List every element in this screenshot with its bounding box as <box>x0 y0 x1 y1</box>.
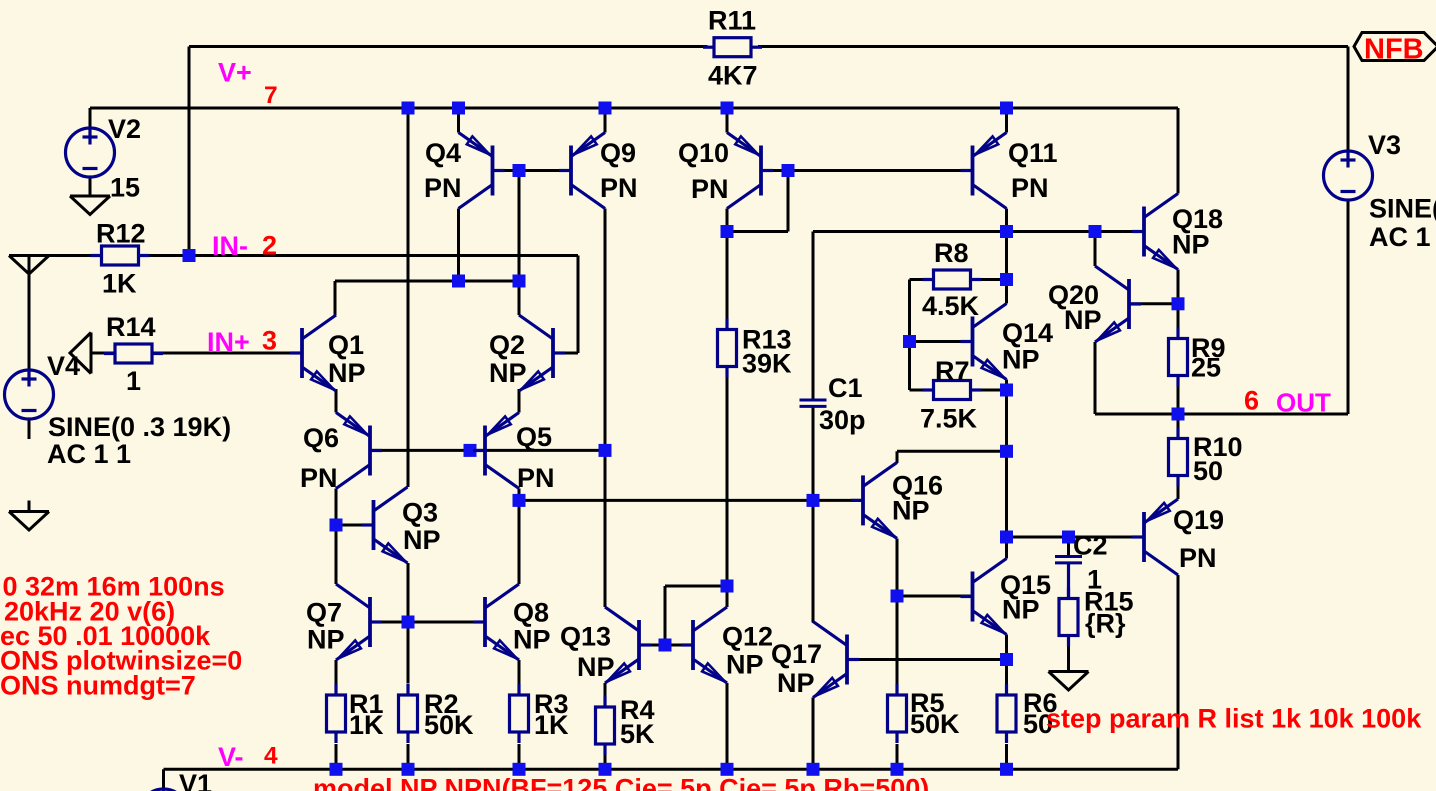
svg-text:C2: C2 <box>1073 531 1108 561</box>
wire Q11 collector drop <box>1005 209 1008 232</box>
node Q17 base node <box>1000 653 1013 666</box>
wire spine 390-451 <box>1005 390 1008 451</box>
wire Q7-Q8 base rail <box>370 621 485 624</box>
node base Q5 pin <box>464 444 477 457</box>
resistor R4 <box>596 696 615 755</box>
svg-text:Q9: Q9 <box>600 138 636 168</box>
wire C1 bottom column <box>812 408 815 623</box>
wire V1 drop <box>162 769 165 789</box>
wire R8 right lead <box>971 278 1007 281</box>
svg-text:NP: NP <box>513 625 551 655</box>
svg-text:AC 1 1: AC 1 1 <box>47 439 131 469</box>
svg-text:50K: 50K <box>910 709 960 739</box>
wire R8 left drop <box>908 280 911 391</box>
wire Q16 collector line <box>897 450 1007 453</box>
wire Q4-Q9 base link <box>493 169 572 172</box>
svg-text:step param R list 1k 10k 100k: step param R list 1k 10k 100k <box>1046 704 1422 734</box>
wire Q10 collector drop <box>726 209 729 232</box>
svg-text:2: 2 <box>262 231 277 261</box>
resistor R14 <box>104 344 163 363</box>
node V- R6 <box>1000 763 1013 776</box>
wire R14 gnd lead <box>91 352 115 355</box>
svg-text:{R}: {R} <box>1085 609 1126 639</box>
wire V3 top drop <box>1347 47 1350 152</box>
wire R9 to OUT <box>1177 376 1180 415</box>
transistor Q7 <box>336 584 382 660</box>
svg-text:Q17: Q17 <box>771 639 822 669</box>
transistor Q17 <box>813 622 859 698</box>
transistor Q10 <box>727 133 773 209</box>
resistor R10 <box>1169 428 1188 487</box>
svg-text:1K: 1K <box>534 710 569 740</box>
node C2 node <box>1062 531 1075 544</box>
wire R9 top lead <box>1177 304 1180 339</box>
svg-text:6: 6 <box>1244 386 1259 416</box>
wire Q20 base lead <box>1129 302 1178 305</box>
svg-text:Q5: Q5 <box>516 422 552 452</box>
net flag NFB <box>1354 33 1436 61</box>
wire Q15 collector rise <box>1005 537 1008 559</box>
svg-text:30p: 30p <box>819 405 866 435</box>
wire C2 top stub <box>1067 537 1070 557</box>
svg-text:PN: PN <box>1011 173 1049 203</box>
node Q3 base node <box>330 519 343 532</box>
svg-text:Q2: Q2 <box>489 330 525 360</box>
svg-text:NP: NP <box>1064 305 1102 335</box>
svg-text:NP: NP <box>577 652 615 682</box>
wire Q12 emitter drop <box>726 683 729 769</box>
svg-text:1: 1 <box>126 366 141 396</box>
node Q4 base diode <box>513 164 526 177</box>
node Q10 diode <box>782 164 795 177</box>
wire Q10-Q11 base link <box>761 169 973 172</box>
resistor R6 <box>997 684 1016 743</box>
svg-text:R12: R12 <box>96 219 146 249</box>
svg-text:NP: NP <box>777 668 815 698</box>
resistor R8 <box>923 270 982 289</box>
svg-text:NP: NP <box>726 650 764 680</box>
voltage source V2 <box>66 128 115 177</box>
svg-text:Q4: Q4 <box>425 138 461 168</box>
wire Q16 collector jog v <box>896 451 899 463</box>
wire top left drop to IN- <box>188 47 191 256</box>
svg-text:model NP NPN(BF=125 Cje=.5p Cj: model NP NPN(BF=125 Cje=.5p Cje=.5p Rb=5… <box>313 774 929 791</box>
node Q16 col node <box>1000 445 1013 458</box>
svg-text:NP: NP <box>1002 345 1040 375</box>
svg-text:NP: NP <box>489 358 527 388</box>
transistor Q6 <box>336 413 382 489</box>
wire Q1 collector riser <box>334 281 337 315</box>
wire Q12 diode horizontal <box>665 585 727 588</box>
wire Q11 emitter to V+ <box>1005 108 1008 133</box>
resistor R3 <box>510 684 529 743</box>
wire Q2 base jog vertical <box>577 256 580 354</box>
svg-text:Q14: Q14 <box>1002 318 1053 348</box>
transistor Q19 <box>1132 499 1178 575</box>
transistor Q13 <box>605 607 651 683</box>
wire NFB-IN- top run <box>189 45 708 48</box>
wire Q4 emitter drop <box>457 108 460 133</box>
transistor Q2 <box>519 315 565 391</box>
svg-text:R14: R14 <box>106 312 156 342</box>
resistor R7 <box>923 381 982 400</box>
node R8 left node <box>903 335 916 348</box>
wire Q16 emitter column <box>896 539 899 685</box>
node Q15 base node <box>891 590 904 603</box>
wire Q14 base lead <box>910 340 973 343</box>
wire R4 bottom <box>604 754 607 769</box>
node mirror rail A <box>452 275 465 288</box>
svg-text:PN: PN <box>300 463 338 493</box>
wire R13 to Q12 node <box>726 367 729 587</box>
node V- R2 <box>402 763 415 776</box>
wire Q3 collector column <box>407 108 410 487</box>
wire Q20 emitter drop <box>1094 342 1097 414</box>
svg-text:IN-: IN- <box>212 231 248 261</box>
node R7 node <box>1000 384 1013 397</box>
wire R6 top lead <box>1005 660 1008 685</box>
node OUT node <box>1172 408 1185 421</box>
resistor R13 <box>718 319 737 378</box>
wire comp node left <box>813 230 1007 233</box>
node V+ Q10 <box>721 102 734 115</box>
svg-text:1K: 1K <box>349 710 384 740</box>
node R8 node <box>1000 273 1013 286</box>
node comp Q10 <box>721 225 734 238</box>
ground at R14 <box>70 333 91 374</box>
wire R2 bottom <box>407 744 410 769</box>
svg-text:50: 50 <box>1193 456 1223 486</box>
svg-text:ONS numdgt=7: ONS numdgt=7 <box>0 670 196 700</box>
node comp Q20 <box>1089 225 1102 238</box>
wire V3 bottom to OUT <box>1347 201 1350 415</box>
svg-text:Q19: Q19 <box>1173 505 1224 535</box>
voltage source V4 <box>5 370 54 419</box>
transistor Q4 <box>459 133 505 209</box>
resistor R1 <box>327 684 346 743</box>
wire OUT to V3 riser <box>1178 413 1348 416</box>
wire C2 to R15 <box>1067 563 1070 600</box>
svg-text:Q1: Q1 <box>328 330 364 360</box>
svg-text:PN: PN <box>517 463 555 493</box>
node V+ Q4 <box>452 102 465 115</box>
wire Q4 collector drop <box>457 209 460 282</box>
wire Q17 base line <box>847 658 1007 661</box>
wire Q3 base lead <box>336 524 374 527</box>
svg-text:R11: R11 <box>708 6 756 36</box>
svg-text:Q10: Q10 <box>678 138 729 168</box>
transistor Q9 <box>559 133 605 209</box>
transistor Q20 <box>1095 266 1141 342</box>
node V+ Q9 <box>599 102 612 115</box>
svg-text:SINE(0 1 1K): SINE(0 1 1K) <box>1369 194 1436 224</box>
svg-text:NFB: NFB <box>1364 33 1424 65</box>
resistor R2 <box>399 684 418 743</box>
node V+ Q11 <box>1000 102 1013 115</box>
svg-text:Q12: Q12 <box>722 622 773 652</box>
wire Q9 emitter to V+ <box>604 108 607 133</box>
wire V3 riser <box>1348 413 1351 416</box>
wire IN+ line <box>153 352 303 355</box>
svg-text:R8: R8 <box>934 238 969 268</box>
svg-text:25: 25 <box>1191 353 1221 383</box>
svg-text:5K: 5K <box>620 719 655 749</box>
svg-text:SINE(0 .3 19K): SINE(0 .3 19K) <box>48 412 231 442</box>
wire IN- from R12 to Q2 jog <box>140 254 578 257</box>
capacitor C2 <box>1055 557 1082 563</box>
voltage source V3 <box>1324 151 1373 200</box>
transistor Q5 <box>473 413 519 489</box>
resistor R15 <box>1059 588 1078 647</box>
wire Q19 base line <box>1069 536 1145 539</box>
wire Q10 collector to R13 <box>726 232 729 330</box>
wire Q18 collector to V+ <box>1177 108 1180 194</box>
node V+ Q3 <box>402 102 415 115</box>
svg-text:1: 1 <box>1087 565 1102 595</box>
svg-text:Q6: Q6 <box>303 423 339 453</box>
wire V- rail <box>164 768 1179 771</box>
svg-text:15: 15 <box>110 173 140 203</box>
wire Q17 emitter drop <box>812 698 815 770</box>
wire Q16 base line <box>519 499 863 502</box>
svg-text:7.5K: 7.5K <box>920 404 978 434</box>
wire Q15 base lead <box>897 595 973 598</box>
resistor R12 <box>91 246 150 265</box>
wire Q20 emitter to OUT <box>1095 413 1178 416</box>
wire Q2-Q5 emitter link <box>518 389 521 413</box>
wire R1 bottom <box>335 744 338 769</box>
wire V+ rail <box>90 107 1178 110</box>
wire mirror rail y281 <box>335 280 519 283</box>
wire comp node to Q18 base <box>1007 230 1145 233</box>
wire V2 minus stub <box>89 178 92 197</box>
svg-text:NP: NP <box>1002 595 1040 625</box>
ground below V2 <box>70 196 110 215</box>
wire Q12-Q13 base link <box>639 644 693 647</box>
wire R8 left lead <box>910 278 934 281</box>
svg-text:7: 7 <box>264 82 278 109</box>
svg-text:Q7: Q7 <box>306 598 342 628</box>
svg-text:NP: NP <box>403 525 441 555</box>
svg-text:C1: C1 <box>828 373 863 403</box>
wire R5 bottom <box>896 744 899 769</box>
svg-text:39K: 39K <box>742 349 792 379</box>
wire C1 top drop <box>812 232 815 400</box>
svg-text:V+: V+ <box>218 58 252 88</box>
wire spine 231-279 <box>1005 232 1008 280</box>
wire R3 bottom <box>518 744 521 769</box>
wire NFB top run right <box>758 45 1348 48</box>
node vas in A <box>513 494 526 507</box>
wire Q13 emitter drop <box>604 683 607 698</box>
node V- R1 <box>330 763 343 776</box>
resistor R5 <box>888 684 907 743</box>
svg-text:PN: PN <box>1179 543 1217 573</box>
wire Q15 emitter drop <box>1005 635 1008 660</box>
wire Q4 base diode drop <box>518 171 521 316</box>
svg-text:PN: PN <box>691 174 729 204</box>
wire R7 left lead <box>910 389 934 392</box>
svg-text:V3: V3 <box>1368 130 1401 160</box>
node V- R5 <box>891 763 904 776</box>
wire R10 to Q19 <box>1177 476 1180 500</box>
wire V4 plus to IN- gnd <box>28 256 31 371</box>
node Q12 diode node <box>659 639 672 652</box>
svg-text:Q8: Q8 <box>513 598 549 628</box>
svg-text:V2: V2 <box>108 114 141 144</box>
wire R2 top lead <box>407 622 410 684</box>
svg-text:1K: 1K <box>102 269 137 299</box>
wire Q9 collector long drop <box>604 209 607 608</box>
svg-text:Q11: Q11 <box>1008 138 1058 168</box>
transistor Q15 <box>961 559 1007 635</box>
node out base A <box>1000 531 1013 544</box>
wire R15 to gnd <box>1067 645 1070 672</box>
node Q12 col node <box>721 580 734 593</box>
wire Q2 base jog horizontal <box>553 352 578 355</box>
voltage source V1 <box>139 789 188 791</box>
node comp spine <box>1000 225 1013 238</box>
wire Q5-Q8 collector column <box>518 489 521 585</box>
svg-text:Q3: Q3 <box>402 498 438 528</box>
svg-text:AC 1 1: AC 1 1 <box>1369 222 1436 252</box>
wire output base line <box>1007 536 1145 539</box>
wire Q14 emitter drop <box>1005 380 1008 391</box>
wire spine 451-537 <box>1005 451 1008 537</box>
wire Q3 emitter to base rail <box>407 563 410 622</box>
svg-text:R7: R7 <box>935 356 970 386</box>
transistor Q16 <box>851 462 897 538</box>
wire Q10 diode horizontal <box>727 230 788 233</box>
svg-text:4K7: 4K7 <box>708 61 758 91</box>
svg-text:V4: V4 <box>47 351 80 381</box>
wire Q18 emitter drop <box>1177 270 1180 305</box>
wire Q7 collector rise <box>335 525 338 584</box>
transistor Q11 <box>961 133 1007 209</box>
svg-text:V1: V1 <box>179 769 212 791</box>
wire Q5-Q6 base line <box>370 449 605 452</box>
svg-text:NP: NP <box>1172 230 1210 260</box>
node V- Q12 <box>721 763 734 776</box>
node IN- tap <box>183 249 196 262</box>
node V- R3 <box>513 763 526 776</box>
svg-text:NP: NP <box>307 625 345 655</box>
ground below R15 <box>1049 672 1089 691</box>
ground at IN- R12 <box>9 256 49 275</box>
wire Q10 diode vertical <box>787 171 790 232</box>
wire Q1-Q6 emitter link <box>335 389 338 413</box>
wire Q20 collector rise <box>1094 232 1097 267</box>
wire R10 top lead <box>1177 414 1180 439</box>
wire R6 bottom <box>1005 744 1008 769</box>
svg-text:NP: NP <box>328 358 366 388</box>
svg-text:4: 4 <box>264 743 278 770</box>
wire R12 left lead <box>29 254 100 257</box>
svg-text:Q13: Q13 <box>560 622 611 652</box>
svg-text:3: 3 <box>262 326 277 356</box>
svg-text:4.5K: 4.5K <box>922 291 980 321</box>
wire Q12 diode vertical <box>664 586 667 645</box>
resistor R11 <box>703 38 762 57</box>
resistor R9 <box>1169 328 1188 387</box>
wire Q14 collector rise <box>1005 280 1008 304</box>
svg-text:PN: PN <box>424 173 462 203</box>
node V- R4 <box>599 763 612 776</box>
transistor Q18 <box>1132 194 1178 270</box>
wire V4 minus stub <box>28 420 31 440</box>
transistor Q8 <box>473 584 519 660</box>
node vas in B <box>807 494 820 507</box>
wire Q19 collector drop <box>1177 575 1180 769</box>
svg-text:V-: V- <box>218 742 244 772</box>
wire Q8 emitter drop <box>518 660 521 684</box>
svg-text:PN: PN <box>600 173 638 203</box>
transistor Q12 <box>681 607 727 683</box>
svg-text:IN+: IN+ <box>207 327 250 357</box>
wire V2 to V+ rail <box>89 108 92 129</box>
node mirror rail B <box>513 275 526 288</box>
node Q7 base node <box>402 616 415 629</box>
transistor Q3 <box>362 487 408 563</box>
node base Q9 col <box>599 444 612 457</box>
wire Q10 emitter to V+ <box>726 108 729 133</box>
svg-text:50K: 50K <box>424 710 474 740</box>
node Q20 base node <box>1172 297 1185 310</box>
transistor Q14 <box>961 304 1007 380</box>
wire Q6 collector drop <box>335 489 338 526</box>
wire Q7 emitter drop <box>335 660 338 684</box>
wire Q12 collector rise <box>726 586 729 607</box>
capacitor C1 <box>800 400 827 406</box>
ground below V4 <box>9 501 49 531</box>
svg-text:OUT: OUT <box>1276 388 1331 418</box>
wire R7 right lead <box>971 389 1007 392</box>
svg-text:NP: NP <box>892 496 930 526</box>
transistor Q1 <box>290 315 336 391</box>
node V- Q17 <box>807 763 820 776</box>
